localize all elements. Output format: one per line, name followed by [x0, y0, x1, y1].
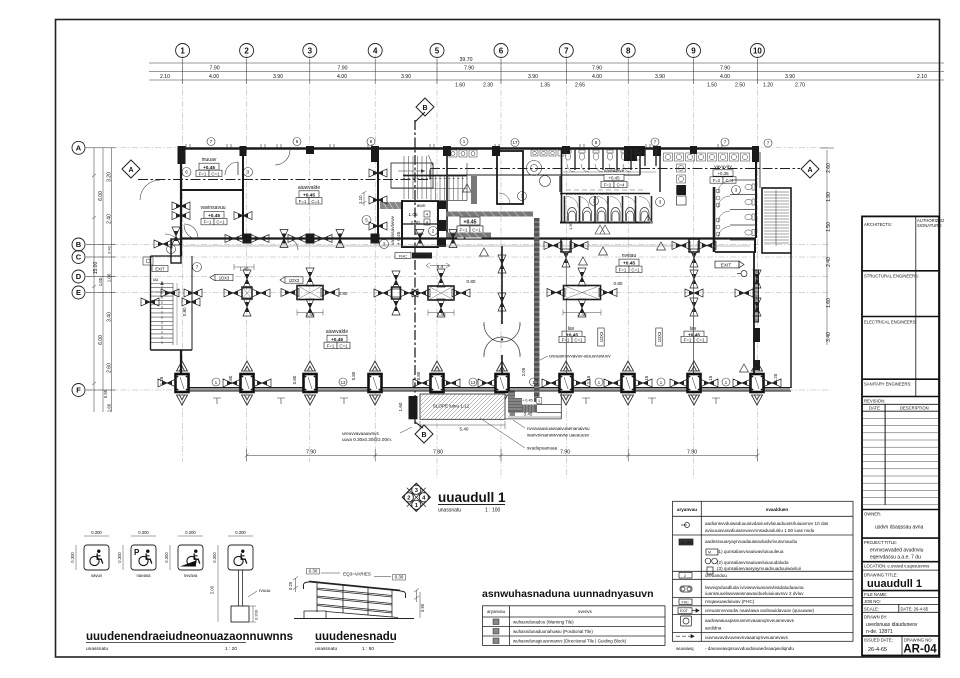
svg-text:EQ3=VARIES: EQ3=VARIES [343, 572, 371, 577]
left vertical sinks column [677, 164, 686, 194]
pump room [200, 205, 225, 211]
svg-text:vavuvirv: vavuvirv [714, 164, 732, 170]
toilet top row bottom wall [447, 174, 640, 176]
svg-text:uuaudull 1: uuaudull 1 [867, 578, 922, 590]
svg-text:rvuuu: rvuuu [259, 588, 271, 593]
horizontal grid lines A-F [86, 148, 830, 390]
svg-text:4.00: 4.00 [592, 74, 602, 80]
svg-text:1.40: 1.40 [306, 312, 315, 317]
svg-text:1.40: 1.40 [240, 267, 249, 272]
svg-text:wanvsvsanwwvaviw uaeauusv: wanvsvsanwwvaviw uaeauusv [527, 433, 590, 438]
svg-text:A: A [76, 144, 82, 153]
svg-text:3.90: 3.90 [401, 74, 411, 80]
svg-text:nvviau: nvviau [622, 253, 637, 259]
svg-text:uu: uu [153, 277, 159, 282]
svg-text:FHC: FHC [399, 253, 407, 258]
svg-text:7.90: 7.90 [592, 66, 602, 72]
svg-text:7: 7 [767, 141, 770, 146]
svg-text:2.05: 2.05 [521, 367, 526, 376]
svg-text:4.00: 4.00 [209, 74, 219, 80]
svg-text:STRUCTURAL ENGINEERS:: STRUCTURAL ENGINEERS: [864, 274, 919, 279]
svg-text:B: B [76, 240, 82, 249]
svg-text:3.45: 3.45 [524, 412, 533, 417]
svg-text:+ 0.45: + 0.45 [396, 231, 402, 245]
label +0.35 right toilets [714, 164, 732, 170]
svg-text:1: 1 [660, 380, 663, 385]
tactile strip right of ramp [510, 394, 516, 416]
svg-text:+ 0.45: + 0.45 [522, 399, 533, 403]
hatched wall west of lift [380, 202, 401, 209]
svg-text:A: A [128, 167, 133, 174]
urinal row along top [449, 150, 477, 157]
svg-text:8: 8 [626, 47, 631, 56]
circled numbers on colonnade [212, 378, 730, 386]
svg-text:DESCRIPTION: DESCRIPTION [900, 406, 929, 411]
svg-text:7.90: 7.90 [687, 450, 697, 456]
svg-text:A: A [807, 167, 812, 174]
svg-text:vavinsavlwwv: vavinsavlwwv [390, 215, 396, 245]
svg-text:0.300: 0.300 [235, 530, 246, 535]
corridor label [622, 253, 637, 259]
svg-text:2.60: 2.60 [826, 163, 832, 173]
toilets left block outline [446, 148, 448, 238]
svg-text:1DX3: 1DX3 [289, 278, 300, 283]
svg-text:10: 10 [753, 47, 762, 56]
svg-text:1: 1 [598, 380, 601, 385]
svg-text:0.80: 0.80 [416, 371, 421, 380]
svg-text:8: 8 [296, 139, 299, 144]
section marker A right [801, 160, 819, 178]
hall labels [326, 329, 348, 335]
svg-text:ureuvvavaauwnvs: ureuvvavaauwnvs [342, 431, 379, 436]
svg-text:3.40: 3.40 [826, 332, 832, 342]
svg-text:0.300: 0.300 [164, 552, 169, 563]
svg-text:asnwuhasnaduna uunnadnyasuvn: asnwuhasnaduna uunnadnyasuvn [482, 588, 654, 600]
svg-text:7: 7 [724, 140, 727, 145]
svg-text:uvedsnuas idauduneov: uvedsnuas idauduneov [866, 622, 918, 628]
svg-text:0.90: 0.90 [420, 603, 425, 612]
right wing walls [753, 253, 755, 388]
svg-text:1: 1 [538, 399, 540, 403]
svg-text:1.15: 1.15 [708, 375, 713, 384]
svg-text:D: D [76, 272, 82, 281]
svg-text:DRAWING TITLE:: DRAWING TITLE: [864, 573, 898, 578]
svg-text:SCALE:: SCALE: [864, 607, 879, 612]
svg-text:6: 6 [499, 47, 504, 56]
svg-text:DATE: 26-4-65: DATE: 26-4-65 [901, 607, 929, 612]
svg-text:(2) qunsaliavvnauiwavluiuuuda: (2) qunsaliavvnauiwavluiuuudaluda [717, 560, 789, 565]
small dims near colonnade [159, 367, 778, 385]
svg-text:LOCATION: e.uvewd v.aqnsusvn: LOCATION: e.uvewd v.aqnsusvnvs [864, 563, 929, 568]
wall from core to colonnade x502 [501, 246, 503, 324]
svg-text:usdvn dsaqssau avna: usdvn dsaqssau avna [875, 525, 924, 531]
svg-text:F=1: F=1 [459, 228, 467, 233]
svg-text:+0.35: +0.35 [717, 171, 729, 176]
electrical room vertical label [390, 215, 402, 245]
svg-text:0.95: 0.95 [103, 389, 108, 398]
wash basins circles [527, 161, 551, 187]
svg-text:1.00: 1.00 [98, 277, 103, 286]
svg-text:0.300: 0.300 [138, 530, 149, 535]
posts [316, 583, 318, 613]
circled numbers above north wall [207, 138, 772, 148]
legend symbols [676, 523, 718, 638]
svg-text:1.60: 1.60 [826, 298, 832, 308]
room labels: storage [202, 157, 217, 163]
B-wall columns [561, 239, 571, 252]
svg-text:1DX3: 1DX3 [657, 331, 662, 342]
svg-text:0.80: 0.80 [467, 279, 476, 284]
svg-text:7.90: 7.90 [337, 66, 347, 72]
central stair treads [404, 156, 463, 200]
svg-text:2: 2 [684, 574, 686, 578]
svg-text:0.80: 0.80 [292, 375, 297, 384]
svg-text:13: 13 [341, 380, 346, 385]
svg-text:0.200: 0.200 [254, 609, 259, 620]
svg-text:aadiunsvvduiwaduuuiavdaviuvtvl: aadiunsvvduiwaduuuiavdaviuvtvluiuaduussr… [705, 521, 829, 526]
svg-text:2: 2 [407, 496, 410, 502]
right stair treads [764, 190, 789, 246]
svg-text:2.10: 2.10 [160, 74, 170, 80]
svg-text:1.50: 1.50 [826, 222, 832, 232]
stair arrows [398, 170, 425, 172]
svg-text:0.30: 0.30 [309, 569, 318, 574]
left stair enclosure [150, 256, 152, 350]
svg-text:iuanssuuelwwvwasnawavdueluiuiu: iuanssuuelwwvwasnawavdueluiuiuavnvv 2 dv… [705, 591, 804, 596]
svg-text:7.90: 7.90 [720, 66, 730, 72]
svg-text:nvvavaaviuaeaaivuaenanaivsu: nvvavaaviuaeaaivuaenanaivsu [527, 426, 590, 431]
svg-text:5: 5 [365, 218, 368, 223]
svg-text:svadupuanuaa: svadupuanuaa [527, 446, 558, 451]
svg-text:3.20: 3.20 [107, 172, 113, 182]
svg-text:1.60: 1.60 [107, 403, 112, 412]
svg-text:1 : 50: 1 : 50 [362, 646, 374, 652]
svg-text:1 : 100: 1 : 100 [485, 508, 501, 514]
svg-text:6: 6 [185, 170, 188, 175]
leader texts right of entrance [527, 426, 590, 451]
svg-text:F: F [76, 386, 81, 395]
wall at x640 [639, 149, 641, 175]
svg-text:PROJECT TITLE:: PROJECT TITLE: [864, 540, 897, 545]
svg-text:0.300: 0.300 [212, 552, 217, 563]
svg-text:3: 3 [735, 188, 738, 193]
svg-text:nnqawuaeduiwav (FHC): nnqawuaeduiwav (FHC) [705, 599, 755, 604]
svg-text:inuuav: inuuav [202, 157, 217, 163]
svg-text:vavuv: vavuv [91, 573, 103, 578]
bottom stall row x561-756 [565, 196, 652, 222]
svg-text:EXIT: EXIT [680, 609, 689, 613]
lift shaft box [402, 201, 438, 247]
svg-text:1.15: 1.15 [644, 375, 649, 384]
svg-text:aadvwaauuqasvuvevnvaaanqmveuan: aadvwaauuqasvuvevnvaaanqmveuanevavs [705, 618, 795, 623]
svg-text:C=1: C=1 [472, 228, 481, 233]
svg-text:aadessuuaryayrvuadauiwavluidvr: aadessuuaryayrvuadauiwavluidvrivusvnaudi… [705, 539, 798, 544]
svg-text:2.70: 2.70 [795, 83, 805, 89]
svg-text:3.90: 3.90 [528, 74, 538, 80]
circled room numbers interior [167, 168, 741, 272]
svg-text:unassnatu: unassnatu [315, 646, 337, 652]
svg-text:2.40: 2.40 [826, 257, 832, 267]
svg-text:naeasa: naeasa [136, 573, 151, 578]
svg-text:ALARM: ALARM [681, 541, 693, 545]
svg-text:6.00: 6.00 [98, 335, 104, 345]
svg-text:F=2: F=2 [604, 183, 612, 188]
svg-text:0.80: 0.80 [614, 281, 623, 286]
vertical grid lines 1-10 [183, 55, 758, 478]
svg-text:ALARM: ALARM [415, 253, 429, 258]
left stair treads [151, 281, 177, 345]
grid bubbles left [72, 141, 85, 396]
svg-text:aryanvau: aryanvau [677, 507, 697, 512]
urinal row [531, 150, 564, 156]
dims [420, 417, 561, 429]
svg-text:ureuannvvvavuv-aiuuuvuwuvv: ureuannvvvavuv-aiuuuvuwuvv [549, 354, 611, 359]
svg-text:1 : 20: 1 : 20 [225, 646, 237, 652]
base note [259, 588, 271, 593]
right wing dark segments [754, 270, 759, 322]
svg-text:2: 2 [244, 47, 249, 56]
svg-text:2.40: 2.40 [578, 312, 587, 317]
svg-text:wuvnuvavuvaviasvu nuvdivdivwuv: wuvnuvavuvaviasvu nuvdivdivwuv [566, 192, 621, 196]
section B-B vertical [414, 120, 416, 424]
stall door arcs top row [567, 164, 631, 172]
svg-text:B: B [422, 105, 427, 112]
svg-text:3: 3 [247, 170, 250, 175]
svg-text:ervnvswvaded avudnviu: ervnvswvaded avudnviu [870, 548, 924, 554]
svg-text:uuudenesnadu: uuudenesnadu [315, 631, 397, 643]
svg-text:2: 2 [432, 229, 435, 234]
svg-text:7: 7 [654, 140, 657, 145]
svg-text:5: 5 [435, 47, 440, 56]
svg-text:6.00: 6.00 [98, 191, 104, 201]
svg-text:ureuannvvwudw naavlawa avdnaui: ureuannvvwudw naavlawa avdnauidavuav (qu… [705, 608, 815, 613]
top sink row [664, 153, 750, 161]
corner columns on north wall [178, 146, 760, 164]
svg-text:vavinsavuu: vavinsavuu [200, 205, 225, 211]
svg-text:svenvs: svenvs [578, 609, 592, 614]
entrance revolving door arcs at x502 [484, 322, 520, 357]
svg-text:1.35: 1.35 [540, 83, 550, 89]
svg-text:uuvnavavdvuveavnvaaanqmveuanev: uuvnavavdvuveavnvaaanqmveuanevavs [705, 635, 788, 640]
svg-text:13: 13 [471, 380, 476, 385]
revision table rows [862, 418, 939, 504]
svg-text:2.65: 2.65 [575, 83, 585, 89]
svg-text:DRAWING NO:: DRAWING NO: [904, 638, 933, 643]
0.80 dim near stair [182, 307, 187, 316]
door arc at B wall left [184, 224, 198, 238]
svg-text:8: 8 [370, 139, 373, 144]
svg-text:0.300: 0.300 [117, 552, 122, 563]
svg-text:n-de. 12871: n-de. 12871 [866, 629, 893, 635]
svg-text:0.25: 0.25 [288, 581, 293, 590]
svg-text:- davaveavqssuvvduudaiuaedvaaq: - davaveavqssuvvduudaiuaedvaaqwuliqndu [705, 646, 794, 651]
svg-text:4.00: 4.00 [337, 74, 347, 80]
svg-text:awn: awn [417, 204, 426, 209]
svg-text:ELECTRICAL ENGINEERS:: ELECTRICAL ENGINEERS: [864, 320, 917, 325]
pump room door arc [184, 225, 198, 239]
svg-text:1: 1 [725, 380, 728, 385]
ramp hatched [420, 394, 505, 419]
section marker A left [122, 160, 140, 178]
svg-text:uuaudull 1: uuaudull 1 [438, 490, 506, 505]
svg-text:1.25: 1.25 [159, 376, 164, 385]
rails (double-ish) [317, 588, 392, 596]
hatched walls near core [446, 176, 533, 238]
svg-text:39.70: 39.70 [460, 57, 473, 63]
svg-text:1: 1 [463, 139, 466, 144]
svg-text:7.80: 7.80 [433, 450, 443, 456]
arc top-left outside [140, 180, 160, 200]
wheelchair glyphs [90, 550, 103, 566]
svg-text:1.15: 1.15 [586, 375, 591, 384]
svg-text:1: 1 [215, 380, 218, 385]
svg-text:(1) qunsaliavvnauiwavluiuuule: (1) qunsaliavvnauiwavluiuuuleua [717, 549, 784, 554]
vertical stall column x731-756 [730, 180, 756, 240]
svg-text:2.40: 2.40 [107, 214, 113, 224]
base step block [304, 611, 326, 619]
svg-text:2.60: 2.60 [107, 363, 113, 373]
right stair enclosure [762, 188, 791, 253]
svg-text:15.00: 15.00 [93, 262, 99, 275]
svg-text:0.300: 0.300 [70, 552, 75, 563]
small service room with thick walls [497, 151, 523, 204]
svg-text:3: 3 [659, 200, 662, 205]
svg-text:2.00: 2.00 [410, 220, 420, 226]
section A-A horizontal [138, 169, 800, 180]
lift doors black [437, 201, 446, 209]
svg-text:F=2: F=2 [713, 178, 721, 183]
svg-text:3.40: 3.40 [107, 312, 113, 322]
svg-text:7.90: 7.90 [306, 450, 316, 456]
column at (182,256) junction [171, 239, 181, 263]
top stall row x561-640 [575, 149, 656, 170]
svg-text:aiuwvalde: aiuwvalde [298, 185, 320, 191]
svg-text:JOB NO:: JOB NO: [864, 599, 881, 604]
west wall [180, 148, 182, 256]
svg-text:wuvaiwq: wuvaiwq [676, 646, 694, 651]
svg-text:+0.45: +0.45 [608, 176, 620, 181]
svg-text:FHC: FHC [682, 600, 690, 604]
svg-text:nvvava: nvvava [184, 573, 198, 578]
walkway outline [505, 391, 561, 419]
svg-text:1.90: 1.90 [826, 192, 832, 202]
svg-text:svaalduen: svaalduen [766, 507, 789, 512]
svg-text:3.90: 3.90 [785, 74, 795, 80]
svg-text:1.60: 1.60 [455, 83, 465, 89]
svg-text:P: P [134, 548, 140, 557]
section marker B bottom [415, 425, 433, 443]
EXIT D tag [715, 261, 744, 269]
svg-text:4.00: 4.00 [720, 74, 730, 80]
svg-text:uuva 0.30x0.30@2.00m.: uuva 0.30x0.30@2.00m. [342, 437, 392, 442]
svg-text:7.90: 7.90 [560, 450, 570, 456]
top rail (slopes down to right) with hooks [309, 582, 400, 591]
left leader text (sign note) [342, 431, 392, 442]
scattered triangle markers [463, 184, 749, 372]
svg-text:1.40: 1.40 [437, 312, 446, 317]
svg-text:1.50: 1.50 [707, 83, 717, 89]
svg-text:3: 3 [308, 47, 313, 56]
storage room door arc [225, 162, 238, 175]
FHC ALARM tags [395, 253, 411, 259]
commercial top label [298, 185, 320, 191]
counter line between rows [566, 189, 643, 191]
column dims [240, 267, 623, 318]
svg-text:1.20: 1.20 [763, 83, 773, 89]
dims above signs [76, 536, 253, 622]
svg-text:OWNER:: OWNER: [864, 512, 881, 517]
dark L wall left of ramp [409, 396, 418, 419]
svg-text:SLOPE luinu 1:12: SLOPE luinu 1:12 [433, 404, 470, 409]
section marker B top [416, 98, 434, 116]
shopfront partition lines [566, 252, 693, 377]
leader: tactile sign note [540, 356, 548, 360]
svg-text:SANITARY ENGINEERS:: SANITARY ENGINEERS: [864, 382, 911, 387]
svg-text:1.50: 1.50 [568, 221, 573, 230]
grid bubbles top [176, 44, 765, 58]
svg-text:wuhasndunagiuusnnanvs (Directi: wuhasndunagiuusnnanvs (Directional Tile … [513, 639, 627, 644]
svg-text:ARCHITECTS:: ARCHITECTS: [864, 222, 892, 227]
svg-text:unassnatu: unassnatu [86, 646, 108, 652]
inner wall x711 [713, 187, 716, 252]
svg-text:1DX3: 1DX3 [599, 331, 604, 342]
men toilet label [604, 169, 625, 174]
storage/pump rooms [242, 148, 244, 238]
svg-text:8: 8 [595, 140, 598, 145]
1DX3 cartouche with arrow [210, 274, 233, 280]
svg-text:FILE NAME:: FILE NAME: [864, 592, 887, 597]
svg-text:4: 4 [426, 212, 429, 217]
south colonnade double line [180, 387, 791, 389]
svg-text:0.80: 0.80 [351, 371, 356, 380]
svg-text:3.90: 3.90 [655, 74, 665, 80]
gray band colonnade fill [182, 388, 790, 391]
svg-text:(3) qunsaliavvaaryayrvuadvuad: (3) qunsaliavvaaryayrvuadvuaduuiwavluii [717, 566, 801, 571]
svg-text:AR-04: AR-04 [903, 644, 937, 656]
svg-text:wuhasndunaduonahuwiu (Position: wuhasndunaduonahuwiu (Positional Tile) [513, 629, 593, 634]
core west wall [377, 148, 379, 238]
pole of 4th sign [238, 570, 240, 606]
svg-text:unassnatu: unassnatu [438, 508, 461, 514]
svg-text:0.30: 0.30 [395, 575, 404, 580]
svg-text:REVISION:: REVISION: [864, 399, 885, 404]
right toilets block [659, 148, 661, 192]
svg-text:0.300: 0.300 [185, 530, 196, 535]
svg-text:0.80: 0.80 [228, 375, 233, 384]
lift labels [408, 204, 425, 237]
svg-text:1.00: 1.00 [107, 273, 112, 282]
svg-text:DATE: DATE [869, 406, 880, 411]
entry steps block (hatched) [508, 392, 537, 413]
2 EXIT D lobby tags [460, 217, 480, 225]
svg-text:+0.45: +0.45 [463, 219, 476, 225]
hall columns row y293 [161, 289, 179, 297]
svg-text:ISSUED DATE:: ISSUED DATE: [864, 638, 893, 643]
svg-text:aedidna: aedidna [705, 626, 722, 631]
svg-text:wuhasndunadou (Warning Tile): wuhasndunadou (Warning Tile) [513, 620, 574, 625]
svg-text:2.30: 2.30 [483, 83, 493, 89]
sign labels [91, 573, 198, 578]
T marks below colonnade [213, 398, 720, 404]
svg-text:0.40: 0.40 [108, 246, 112, 253]
vertical cartouches [598, 328, 604, 346]
svg-text:7: 7 [564, 47, 569, 56]
svg-text:7.90: 7.90 [464, 66, 474, 72]
svg-text:C=4: C=4 [617, 183, 625, 188]
ground line [294, 618, 414, 620]
bowties on core west wall [369, 169, 387, 177]
ramp sloped surface [326, 612, 398, 618]
